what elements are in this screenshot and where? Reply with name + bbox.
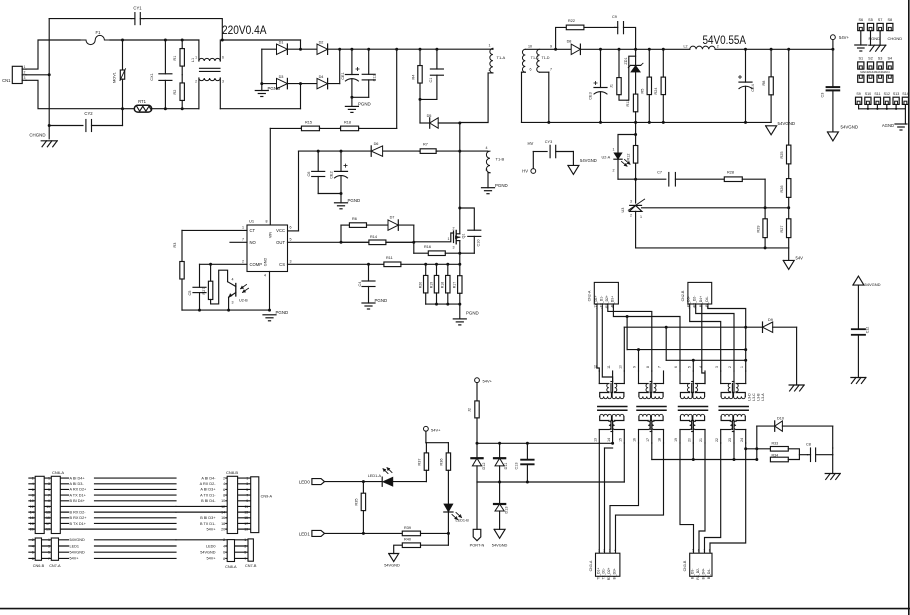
- svg-text:C11: C11: [373, 75, 377, 82]
- svg-text:1: 1: [195, 56, 197, 60]
- svg-text:17: 17: [646, 438, 650, 442]
- wire route T3-19: [680, 443, 694, 553]
- svg-text:C3: C3: [821, 93, 825, 98]
- svg-text:16: 16: [30, 516, 34, 520]
- wire route CN3-B p8: [710, 449, 746, 553]
- svg-text:T1-B: T1-B: [496, 157, 505, 162]
- svg-text:3: 3: [232, 301, 234, 305]
- power ground 54VGND output: [766, 121, 795, 135]
- svg-text:2: 2: [630, 214, 632, 218]
- resistor R26: [780, 179, 791, 219]
- svg-text:C13: C13: [515, 463, 519, 470]
- resistor R22: [566, 19, 584, 30]
- flag LED1: [299, 530, 402, 536]
- svg-text:2: 2: [223, 477, 225, 481]
- svg-text:4: 4: [486, 146, 488, 150]
- resistor R37: [418, 443, 429, 482]
- svg-text:BI_D3-: BI_D3-: [691, 569, 695, 579]
- svg-text:11: 11: [244, 505, 248, 509]
- resistor R5: [641, 49, 652, 122]
- svg-text:54V+: 54V+: [839, 35, 849, 40]
- svg-text:CN7-A: CN7-A: [49, 564, 61, 568]
- transformer T1-C winding: [522, 45, 540, 123]
- svg-text:10: 10: [221, 499, 225, 503]
- capacitor C4: [358, 264, 375, 303]
- svg-text:CN3-B: CN3-B: [683, 560, 687, 571]
- diode D8: [567, 40, 581, 55]
- svg-text:BI_D4-: BI_D4-: [707, 569, 711, 579]
- svg-text:A RX D2+: A RX D2+: [70, 488, 88, 492]
- svg-text:1: 1: [244, 538, 246, 542]
- svg-text:D4: D4: [319, 75, 324, 79]
- wire route A3: [608, 304, 652, 371]
- svg-text:54VGND: 54VGND: [384, 563, 400, 568]
- labels lower rows: [32, 538, 246, 561]
- junction: [419, 98, 422, 101]
- transformer T1-B aux winding: [486, 146, 505, 188]
- wire C6 CE2 join: [318, 194, 341, 203]
- svg-text:D11: D11: [504, 463, 508, 470]
- svg-text:6: 6: [222, 56, 224, 60]
- chassis ground CHGND: [29, 133, 57, 147]
- shunt regulator U3 TL431: [621, 199, 645, 248]
- svg-text:CN9-A: CN9-A: [261, 495, 273, 499]
- svg-text:1: 1: [448, 237, 450, 241]
- svg-text:1: 1: [242, 226, 244, 230]
- svg-text:6: 6: [530, 68, 532, 72]
- svg-text:PORT-N: PORT-N: [470, 543, 485, 548]
- connector CN3-A: [589, 549, 620, 580]
- wire AC line top: [110, 39, 199, 41]
- svg-text:D7: D7: [390, 216, 395, 220]
- svg-text:54VGND: 54VGND: [70, 551, 85, 555]
- svg-text:13: 13: [46, 511, 50, 515]
- label MAK4 row: [860, 70, 890, 74]
- svg-text:J2: J2: [468, 408, 472, 412]
- junction: [317, 150, 343, 153]
- svg-text:D6: D6: [374, 142, 379, 146]
- transformer T1-D winding: [537, 45, 552, 123]
- diode D4: [317, 75, 328, 89]
- junction: [476, 442, 529, 445]
- svg-text:23: 23: [728, 438, 732, 442]
- power ground 54VGND fb: [783, 255, 803, 269]
- resistor R20: [419, 264, 428, 304]
- svg-text:B RX D2+: B RX D2+: [70, 516, 88, 520]
- svg-text:5: 5: [688, 366, 692, 368]
- diode D10: [757, 417, 833, 448]
- svg-text:ZD1: ZD1: [624, 57, 628, 64]
- svg-text:BI_D3+: BI_D3+: [613, 568, 617, 579]
- svg-text:T1-D: T1-D: [542, 56, 550, 60]
- jumper S4: [887, 56, 893, 82]
- wire harness lower rows: [29, 538, 248, 561]
- svg-text:R33: R33: [772, 441, 779, 445]
- svg-text:R1: R1: [173, 56, 177, 61]
- svg-text:17: 17: [244, 522, 248, 526]
- svg-text:3: 3: [244, 544, 246, 548]
- wire R33 line: [746, 443, 771, 449]
- svg-text:S7: S7: [878, 18, 883, 22]
- svg-text:24: 24: [740, 438, 744, 442]
- svg-text:7: 7: [658, 366, 662, 368]
- jumper S1: [858, 56, 864, 82]
- resistor R8: [762, 49, 773, 122]
- junction: [692, 458, 759, 461]
- svg-text:Q1: Q1: [462, 233, 466, 238]
- junction: [626, 315, 748, 351]
- junction: [350, 96, 353, 99]
- jumper S14: [902, 92, 908, 109]
- svg-text:B BI D3+: B BI D3+: [200, 516, 216, 520]
- wire secondary gnd bus: [522, 121, 772, 123]
- svg-text:2: 2: [195, 79, 197, 83]
- svg-text:4: 4: [264, 274, 266, 278]
- wire R34 line: [652, 459, 757, 461]
- svg-text:C9: C9: [612, 15, 617, 19]
- svg-text:S8: S8: [887, 18, 892, 22]
- wire CS pin3: [288, 263, 384, 265]
- svg-text:CE2: CE2: [330, 171, 334, 178]
- svg-text:12: 12: [30, 505, 34, 509]
- svg-text:1: 1: [48, 477, 50, 481]
- svg-text:MOV1: MOV1: [113, 72, 117, 83]
- wire D9 vertical: [745, 327, 747, 371]
- svg-text:U2-B: U2-B: [239, 299, 248, 303]
- wire U3 cathode: [635, 179, 637, 203]
- wire drain branch to C10: [460, 208, 475, 230]
- wire route T1 right: [623, 327, 625, 371]
- connector CN6-B: [33, 538, 45, 568]
- svg-text:54VGND: 54VGND: [200, 551, 215, 555]
- svg-text:7: 7: [550, 68, 552, 72]
- LED LED1-B: [444, 504, 469, 534]
- svg-text:C12: C12: [866, 327, 870, 334]
- svg-text:HV: HV: [522, 168, 528, 173]
- svg-text:R4: R4: [412, 75, 416, 80]
- svg-text:54V+: 54V+: [70, 557, 80, 561]
- svg-text:R7: R7: [423, 143, 428, 147]
- svg-text:5: 5: [246, 488, 248, 492]
- svg-text:RX_D2-: RX_D2-: [696, 568, 700, 580]
- svg-text:CHGND: CHGND: [888, 36, 903, 41]
- transformer L3-C: [633, 366, 666, 443]
- wire COMP pin2: [200, 263, 248, 265]
- capacitor CE1: [341, 49, 359, 97]
- capacitor C11: [362, 49, 376, 97]
- svg-text:R40: R40: [404, 538, 411, 542]
- capacitor CY2: [49, 109, 122, 132]
- svg-text:14: 14: [607, 438, 611, 442]
- svg-text:10: 10: [528, 45, 532, 49]
- svg-text:LED1: LED1: [70, 544, 80, 548]
- wire bridge bottom rail: [262, 83, 340, 85]
- svg-text:LED1: LED1: [299, 531, 311, 536]
- svg-text:4: 4: [232, 278, 234, 282]
- svg-text:S10: S10: [865, 92, 871, 96]
- transformer L3-B: [674, 366, 707, 443]
- resistor R35: [355, 482, 366, 534]
- inductor L1 common-mode choke: [191, 40, 224, 109]
- svg-text:L3-C: L3-C: [752, 393, 756, 401]
- wire PGND bus: [182, 309, 270, 311]
- wire CN1 pin1 to AC line: [26, 40, 80, 69]
- svg-text:9: 9: [246, 499, 248, 503]
- diode D1: [277, 41, 288, 55]
- wire R22 snubber top: [556, 27, 636, 49]
- terminal HV: [522, 141, 536, 173]
- svg-text:D5: D5: [427, 114, 432, 118]
- svg-text:L3-B: L3-B: [757, 393, 761, 401]
- svg-text:20: 20: [30, 528, 34, 532]
- svg-text:1: 1: [613, 147, 615, 151]
- svg-text:1: 1: [598, 549, 600, 553]
- resistor R7: [419, 143, 437, 154]
- svg-text:CN6-B: CN6-B: [33, 564, 45, 568]
- svg-text:D3: D3: [279, 75, 284, 79]
- svg-text:LED0: LED0: [206, 544, 216, 548]
- capacitor CX1: [150, 40, 172, 109]
- svg-text:54VGND: 54VGND: [492, 543, 508, 548]
- wire AC neutral to bridge: [220, 84, 300, 109]
- wire bridge output up: [339, 49, 341, 83]
- svg-text:U1: U1: [249, 219, 255, 224]
- wire CE1 C11 join: [352, 97, 369, 106]
- svg-text:LED1-A: LED1-A: [368, 474, 382, 478]
- svg-text:D1: D1: [279, 41, 284, 45]
- terminal 54V+: [831, 35, 850, 40]
- svg-text:1: 1: [640, 215, 642, 219]
- svg-text:54V+: 54V+: [483, 378, 493, 383]
- jumper J1: [610, 49, 636, 100]
- svg-text:C8: C8: [806, 443, 811, 447]
- terminal 54V+ poe: [475, 378, 493, 384]
- svg-text:B BI D4-: B BI D4-: [201, 499, 216, 503]
- svg-text:CY1: CY1: [133, 6, 142, 11]
- resistor R33: [770, 441, 807, 454]
- svg-text:16: 16: [221, 516, 225, 520]
- transformer T1-A: [460, 43, 506, 122]
- diode D9: [763, 318, 797, 385]
- svg-text:R34: R34: [772, 453, 779, 457]
- svg-text:CY3: CY3: [545, 140, 552, 144]
- jumper S11: [874, 92, 880, 109]
- capacitor C5: [188, 264, 206, 310]
- wire center tap line B: [477, 481, 624, 483]
- svg-text:R11: R11: [386, 256, 393, 260]
- junction: [362, 480, 365, 483]
- wire OUT pin5: [288, 241, 414, 243]
- svg-text:CN8-B: CN8-B: [226, 470, 238, 475]
- connector CN8-B: [226, 470, 238, 533]
- svg-text:19: 19: [244, 528, 248, 532]
- wire route B5: [690, 304, 721, 371]
- junction: [547, 121, 747, 124]
- svg-text:GND: GND: [264, 258, 268, 267]
- jumper S3: [877, 56, 883, 82]
- svg-text:2: 2: [32, 538, 34, 542]
- svg-text:C1: C1: [429, 78, 433, 83]
- resistor R3: [173, 230, 184, 310]
- wire route T1-14 branch: [605, 448, 613, 553]
- resistor R2: [173, 75, 184, 109]
- svg-text:PGND: PGND: [348, 198, 361, 203]
- junction: [367, 263, 449, 266]
- labels upper rows: [30, 476, 248, 531]
- svg-text:7: 7: [242, 238, 244, 242]
- resistor R27: [202, 264, 228, 304]
- svg-text:8: 8: [223, 557, 225, 561]
- svg-text:1: 1: [740, 366, 744, 368]
- svg-text:54V: 54V: [796, 255, 804, 260]
- resistor R18: [340, 120, 360, 130]
- wire VCC drop: [288, 151, 299, 231]
- junction: [498, 481, 529, 484]
- diode D13: [494, 482, 509, 529]
- svg-text:7: 7: [48, 494, 50, 498]
- wire route T2-17 centertap: [651, 443, 653, 460]
- wire route A4: [613, 304, 680, 371]
- svg-text:R6: R6: [352, 217, 357, 221]
- svg-text:R37: R37: [418, 459, 422, 466]
- svg-text:A TX D1-: A TX D1-: [200, 493, 216, 497]
- svg-text:15: 15: [244, 516, 248, 520]
- svg-text:CY2: CY2: [84, 111, 93, 116]
- wire route T3-20 centertap: [692, 443, 694, 460]
- connector CN2-B: [681, 282, 712, 309]
- fuse F1: [80, 30, 110, 45]
- svg-text:S5: S5: [868, 18, 873, 22]
- svg-text:RT1: RT1: [138, 99, 147, 104]
- wire route A1: [597, 304, 599, 371]
- svg-text:R39: R39: [404, 526, 411, 530]
- capacitor C9: [612, 15, 624, 34]
- svg-text:R15: R15: [305, 120, 312, 124]
- junction: [744, 48, 790, 51]
- junction: [634, 178, 637, 181]
- svg-text:16: 16: [633, 438, 637, 442]
- svg-text:14: 14: [30, 511, 34, 515]
- resistor R19: [429, 264, 438, 304]
- junction: [599, 48, 665, 51]
- svg-text:22: 22: [715, 438, 719, 442]
- svg-text:3: 3: [453, 245, 455, 249]
- transformer L3-A: [715, 366, 748, 443]
- wire CS to bank: [401, 263, 460, 265]
- svg-text:3: 3: [48, 544, 50, 548]
- resistor R18b: [441, 264, 450, 304]
- svg-text:R36: R36: [440, 459, 444, 466]
- svg-text:4: 4: [32, 544, 34, 548]
- svg-text:S1: S1: [858, 56, 863, 60]
- jumper S12: [884, 92, 890, 109]
- jumper S9: [856, 92, 862, 109]
- svg-text:C6: C6: [307, 172, 311, 177]
- wire bridge left side: [261, 49, 263, 90]
- resistor R13: [626, 94, 638, 134]
- svg-text:R24: R24: [654, 88, 658, 95]
- pin stub NO pin7: [230, 241, 247, 243]
- svg-text:R28: R28: [727, 170, 734, 174]
- svg-text:2: 2: [242, 260, 244, 264]
- svg-text:54V+: 54V+: [207, 557, 217, 561]
- wire route mid line c: [627, 317, 746, 350]
- svg-text:S6: S6: [858, 18, 863, 22]
- svg-text:R18: R18: [441, 282, 445, 288]
- terminal 54V+ led: [424, 426, 442, 432]
- wire secondary rail: [525, 48, 833, 50]
- svg-text:A BI D3+: A BI D3+: [200, 488, 216, 492]
- jumper S7: [877, 18, 883, 30]
- junction: [209, 263, 212, 266]
- flag LED0: [299, 479, 382, 485]
- svg-text:MAK4MAK4MAK4MAK4: MAK4MAK4MAK4MAK4: [860, 70, 890, 74]
- svg-text:4: 4: [223, 544, 225, 548]
- resistor J2: [468, 383, 480, 444]
- svg-text:R26: R26: [780, 186, 784, 193]
- svg-text:10: 10: [30, 499, 34, 503]
- power ground 54VGND col: [853, 276, 881, 287]
- resistor R4: [412, 49, 423, 99]
- svg-text:54V0.55A: 54V0.55A: [703, 35, 747, 47]
- svg-text:R14: R14: [370, 235, 377, 239]
- svg-text:PGND: PGND: [276, 310, 289, 315]
- capacitor CY1: [131, 6, 144, 25]
- wire CY1 top line: [49, 19, 222, 40]
- thermistor RT1: [123, 99, 199, 112]
- capacitor C8: [806, 443, 833, 462]
- svg-text:CS: CS: [279, 262, 285, 267]
- svg-text:1: 1: [489, 43, 491, 47]
- svg-text:20: 20: [688, 438, 692, 442]
- svg-text:3: 3: [630, 199, 632, 203]
- LED LED1-A: [368, 468, 427, 487]
- flag PORT-N: [470, 482, 485, 548]
- wire gate: [414, 233, 454, 242]
- svg-text:CE1: CE1: [341, 72, 345, 79]
- wire R28 drop: [764, 179, 766, 208]
- svg-text:S12: S12: [884, 92, 890, 96]
- svg-text:R27: R27: [202, 288, 206, 295]
- svg-text:D9: D9: [768, 318, 773, 322]
- svg-text:6: 6: [698, 549, 700, 553]
- svg-text:1: 1: [246, 477, 248, 481]
- svg-text:C10: C10: [477, 240, 481, 247]
- transistor Q1 MOSFET: [448, 226, 466, 249]
- svg-text:15: 15: [46, 516, 50, 520]
- svg-text:8: 8: [646, 366, 650, 368]
- wire route T2-16: [610, 443, 639, 553]
- power ground 54VGND CY3: [568, 152, 597, 175]
- wire route T2 left drop: [638, 350, 640, 371]
- wire route B7: [702, 304, 705, 384]
- transformer L3-D: [594, 365, 627, 443]
- svg-text:19: 19: [46, 528, 50, 532]
- jumper S10: [865, 92, 871, 109]
- svg-text:3: 3: [24, 76, 26, 80]
- ground PGND jumpers: [855, 31, 880, 51]
- diode D6: [371, 142, 382, 156]
- wire drain line: [459, 123, 461, 234]
- capacitor CY3: [533, 140, 573, 158]
- svg-text:6: 6: [223, 488, 225, 492]
- capacitor C13: [515, 443, 534, 482]
- power ground 54VGND D13: [492, 529, 508, 547]
- wire led supply: [426, 431, 449, 443]
- svg-text:S2: S2: [868, 56, 873, 60]
- svg-text:CN7-B: CN7-B: [245, 564, 257, 568]
- wire route T4-23 centertap: [733, 443, 735, 460]
